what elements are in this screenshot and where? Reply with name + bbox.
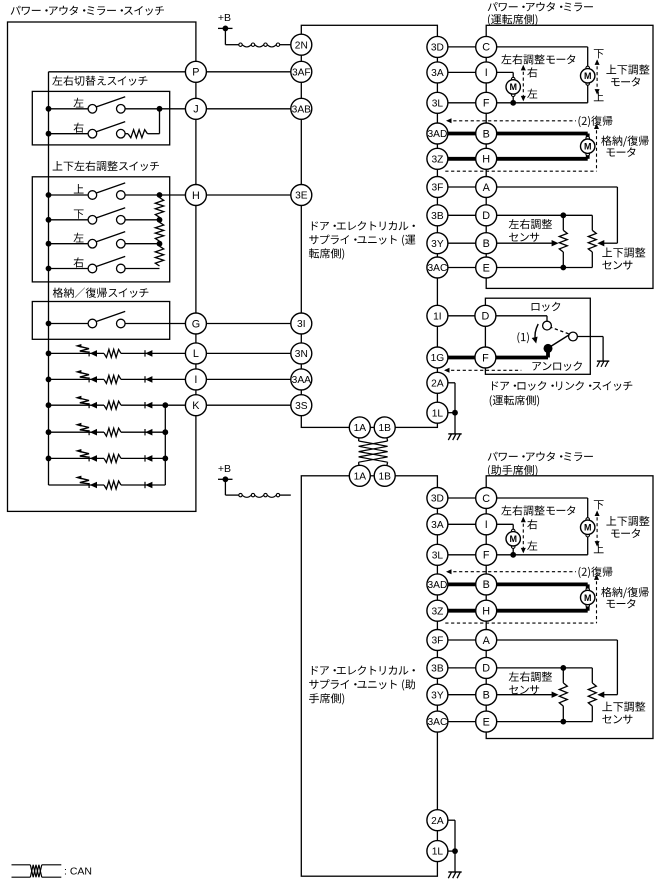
svg-text:3A: 3A	[431, 68, 444, 79]
svg-text:G: G	[192, 318, 200, 330]
svg-text:3Z: 3Z	[431, 606, 443, 617]
svg-text:C: C	[482, 42, 490, 54]
svg-text:B: B	[483, 128, 490, 140]
svg-text:I: I	[194, 374, 197, 386]
svg-text:+B: +B	[218, 12, 231, 24]
svg-text:3F: 3F	[431, 636, 443, 647]
svg-text:3AC: 3AC	[427, 717, 447, 728]
svg-text:C: C	[482, 493, 490, 505]
svg-text:F: F	[483, 98, 490, 110]
svg-text:I: I	[485, 519, 488, 531]
svg-text:D: D	[482, 663, 490, 675]
svg-text:I: I	[485, 67, 488, 79]
svg-text:2N: 2N	[295, 40, 308, 51]
svg-text:M: M	[509, 82, 517, 92]
svg-text:: CAN: : CAN	[64, 865, 92, 877]
svg-text:1A: 1A	[354, 471, 367, 482]
svg-text:1L: 1L	[432, 408, 444, 419]
svg-text:3AA: 3AA	[292, 375, 311, 386]
svg-text:3B: 3B	[431, 664, 444, 675]
svg-text:H: H	[482, 154, 490, 166]
svg-text:3L: 3L	[432, 550, 444, 561]
svg-text:M: M	[509, 534, 517, 544]
svg-text:L: L	[193, 348, 199, 360]
svg-text:M: M	[584, 593, 592, 603]
svg-text:M: M	[584, 523, 592, 533]
svg-text:3D: 3D	[431, 43, 444, 54]
svg-text:K: K	[192, 400, 200, 412]
svg-text:3S: 3S	[295, 401, 308, 412]
svg-text:3Y: 3Y	[431, 239, 444, 250]
svg-text:B: B	[483, 690, 490, 702]
svg-text:F: F	[483, 550, 490, 562]
svg-text:E: E	[483, 716, 490, 728]
svg-text:3AB: 3AB	[292, 104, 311, 115]
svg-text:1L: 1L	[432, 847, 444, 858]
svg-text:M: M	[584, 141, 592, 151]
svg-text:3AC: 3AC	[427, 263, 447, 274]
svg-text:B: B	[483, 579, 490, 591]
svg-text:3L: 3L	[432, 98, 444, 109]
svg-text:D: D	[482, 210, 490, 222]
svg-text:H: H	[192, 190, 200, 202]
svg-text:1B: 1B	[378, 423, 391, 434]
svg-text:1I: 1I	[433, 311, 442, 322]
svg-text:3F: 3F	[431, 183, 443, 194]
svg-text:3B: 3B	[431, 211, 444, 222]
svg-text:3E: 3E	[295, 191, 308, 202]
svg-text:3D: 3D	[431, 494, 444, 505]
svg-text:A: A	[483, 182, 491, 194]
svg-text:B: B	[483, 238, 490, 250]
svg-text:2A: 2A	[431, 378, 444, 389]
svg-text:J: J	[193, 104, 198, 116]
svg-text:P: P	[192, 67, 199, 79]
svg-text:E: E	[483, 262, 490, 274]
svg-text:3Z: 3Z	[431, 154, 443, 165]
svg-text:1B: 1B	[378, 471, 391, 482]
svg-text:1A: 1A	[354, 423, 367, 434]
svg-text:1G: 1G	[431, 353, 445, 364]
svg-text:F: F	[482, 352, 489, 364]
svg-text:3Y: 3Y	[431, 690, 444, 701]
svg-text:2A: 2A	[431, 816, 444, 827]
svg-text:D: D	[481, 311, 489, 323]
svg-text:3AD: 3AD	[427, 129, 447, 140]
svg-text:3AF: 3AF	[292, 67, 311, 78]
svg-text:H: H	[482, 606, 490, 618]
svg-text:+B: +B	[218, 463, 231, 475]
svg-text:3N: 3N	[295, 349, 308, 360]
svg-text:3A: 3A	[431, 520, 444, 531]
svg-text:3I: 3I	[297, 319, 306, 330]
svg-text:M: M	[584, 71, 592, 81]
svg-text:A: A	[483, 635, 491, 647]
svg-text:3AD: 3AD	[427, 580, 447, 591]
